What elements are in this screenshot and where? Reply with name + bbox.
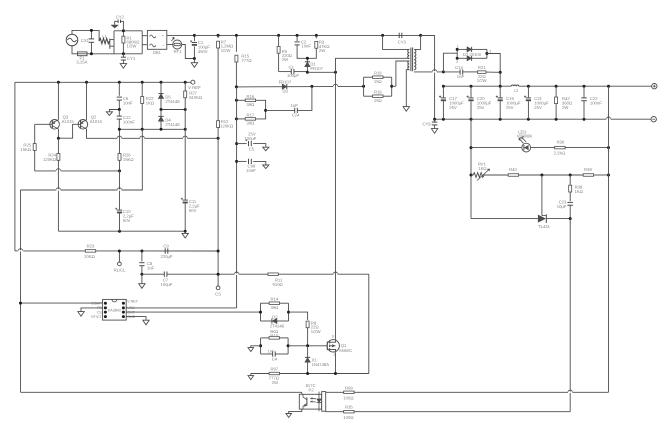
resistor R99 100Ohm: [326, 391, 344, 393]
ground aux winding: [403, 107, 409, 112]
resistor R11 910Ohm: [218, 273, 268, 275]
wire comp net left vertical: [20, 190, 22, 392]
svg-text:RL/CL: RL/CL: [114, 267, 127, 272]
svg-text:100Ω: 100Ω: [343, 396, 353, 401]
svg-text:C3: C3: [289, 64, 294, 69]
resistor R18 15Ohm: [363, 77, 365, 86]
svg-text:VD808K: VD808K: [517, 134, 533, 139]
ground C11/R24 node: [184, 230, 187, 233]
capacitor C8 1nF: [140, 250, 143, 253]
node VCC vertical junctions: [235, 142, 238, 145]
wire secondary return down to output minus bus: [421, 35, 435, 119]
svg-text:777Ω: 777Ω: [241, 58, 251, 63]
svg-text:A1015: A1015: [90, 119, 103, 124]
capacitor CY9 with ground: [434, 119, 436, 122]
diode D5 2T4148: [160, 82, 162, 93]
terminal CS: [216, 286, 220, 290]
svg-text:R23: R23: [87, 244, 95, 249]
wire R25 to R26 bottom line: [35, 170, 120, 172]
ground U1 GND: [143, 320, 149, 325]
wire bottom line F1 to filter loop: [87, 53, 114, 55]
svg-text:3: 3: [489, 49, 491, 53]
svg-text:25V: 25V: [534, 105, 542, 110]
svg-text:5N60C: 5N60C: [339, 348, 352, 353]
svg-text:15KΩ: 15KΩ: [123, 157, 134, 162]
capacitor CX1: [89, 38, 95, 40]
svg-text:R36: R36: [557, 140, 565, 145]
capacitor C4 1nF: [260, 346, 262, 354]
resistor R22 1KOhm: [141, 82, 143, 96]
svg-text:1KΩ: 1KΩ: [146, 100, 154, 105]
svg-text:25V: 25V: [449, 105, 457, 110]
transistor Q3 A1015: [50, 120, 60, 130]
svg-text:50V: 50V: [123, 218, 131, 223]
capacitor C10 2,2uF 50V: [119, 171, 121, 210]
svg-text:1: 1: [457, 44, 459, 48]
svg-text:50V: 50V: [189, 208, 197, 213]
svg-text:20KΩ: 20KΩ: [84, 254, 95, 259]
ground R10: [251, 346, 261, 348]
node R12 column junctions: [217, 250, 220, 253]
svg-text:1/2W: 1/2W: [221, 48, 231, 53]
wire comp rail to opto: [21, 391, 302, 393]
ground C8 bottom: [140, 273, 143, 276]
terminal RL/CL: [118, 251, 120, 262]
svg-text:R16: R16: [247, 94, 255, 99]
svg-text:C4: C4: [272, 357, 278, 362]
capacitor CY1 with ground: [122, 54, 124, 57]
svg-text:R99: R99: [345, 385, 353, 390]
wire secondary bottom line: [414, 71, 444, 73]
diode D2 2T4148: [260, 312, 262, 321]
svg-text:R39: R39: [584, 167, 592, 172]
svg-text:1/2W: 1/2W: [311, 329, 321, 334]
transistor Q2 A1015: [78, 120, 88, 130]
wire VREF bus left drop: [14, 82, 16, 251]
svg-text:CY2: CY2: [116, 14, 125, 19]
svg-text:10µF: 10µF: [557, 204, 567, 209]
wire VCC pin to VCC vertical: [126, 307, 236, 309]
wire clamp node to drain line: [307, 71, 335, 73]
svg-text:220µF: 220µF: [161, 254, 173, 259]
wire comp net horizontal: [21, 129, 143, 190]
terminal V REF: [191, 80, 195, 84]
wire Q3 base to R25: [35, 123, 53, 125]
resistor R17 39Ohm: [236, 118, 245, 120]
diode D3 FR107: [282, 84, 287, 89]
resistor R1 680KOhm 1/2W: [122, 31, 124, 36]
diode D1 FR107 clamp: [305, 61, 310, 63]
svg-text:CY1: CY1: [127, 56, 136, 61]
svg-text:2T4148: 2T4148: [270, 323, 285, 328]
svg-text:100nF: 100nF: [123, 119, 135, 124]
potentiometer RV1 1KOhm: [471, 173, 486, 178]
resistor R39: [583, 174, 593, 177]
svg-text:C24: C24: [292, 113, 300, 118]
resistor R27 810KOhm: [184, 82, 186, 91]
svg-text:2W: 2W: [319, 48, 325, 53]
resistor R38 1KOhm: [569, 175, 571, 185]
svg-text:DB1: DB1: [153, 50, 162, 55]
node VREF bus junctions: [57, 81, 60, 84]
node bias bus junctions: [118, 128, 121, 131]
wire Q2 collector line to R12: [87, 129, 219, 138]
svg-text:100µF: 100µF: [160, 282, 172, 287]
optocoupler P2 817C: [301, 392, 303, 394]
svg-text:100µF: 100µF: [287, 73, 299, 78]
svg-text:39Ω: 39Ω: [271, 305, 279, 310]
wire filter loop bottom: [114, 53, 142, 55]
svg-text:C9: C9: [163, 244, 169, 249]
resistor R40: [486, 174, 508, 176]
svg-text:15Ω: 15Ω: [374, 79, 382, 84]
ground FB: [78, 312, 84, 317]
node D1 junctions: [306, 57, 309, 60]
svg-text:1nF: 1nF: [147, 265, 155, 270]
svg-text:CY3: CY3: [398, 40, 407, 45]
node gate drive junctions: [259, 311, 262, 314]
inductor L2: [511, 85, 519, 86]
svg-text:120KΩ: 120KΩ: [43, 157, 56, 162]
wire aux winding top to R18/R19: [396, 61, 409, 86]
wire plus-sense down to R99 line: [608, 86, 610, 392]
resistor R19 15Ohm: [363, 86, 365, 96]
capacitor C1 100uF 450V: [193, 35, 195, 41]
svg-text:R35: R35: [345, 405, 353, 410]
resistor R26 15KOhm: [119, 129, 121, 153]
wire aux rectifier line: [236, 85, 363, 88]
node C1 junctions: [193, 34, 196, 37]
wire D5 to R27 node: [161, 109, 185, 111]
capacitor C99 10nF: [237, 160, 247, 162]
svg-text:1KΩ: 1KΩ: [575, 189, 583, 194]
wire GND pin to ground: [126, 317, 146, 321]
node U1 pin dots: [104, 302, 107, 305]
wire output minus bus: [435, 118, 651, 120]
svg-text:FR107: FR107: [279, 80, 292, 85]
svg-text:CY9: CY9: [422, 121, 431, 126]
svg-text:D7 20100: D7 20100: [463, 52, 482, 57]
capacitor C5 100uF 25V VCC filter: [237, 143, 247, 145]
resistor R25 15KOhm: [34, 124, 36, 143]
wire TL431 ref: [541, 175, 543, 216]
svg-text:10nF: 10nF: [301, 44, 311, 49]
svg-text:2: 2: [456, 60, 458, 64]
thermistor RT1: [173, 40, 182, 49]
resistor R16 39Ohm: [236, 99, 245, 101]
wire DB1 - output to RT1: [167, 44, 173, 46]
transformer T1 primary winding: [408, 49, 410, 58]
MOSFET Q1 5N60C: [327, 340, 339, 352]
wire AC source top to CX1/L1: [72, 30, 99, 41]
node minus bus junctions: [433, 118, 436, 121]
wire RT1 to C1 negative node: [182, 45, 195, 59]
svg-text:39Ω: 39Ω: [247, 120, 255, 125]
wire R11 down to source line: [368, 274, 370, 373]
ground opto emitter: [289, 409, 302, 413]
inductor L1 (filter choke): [99, 38, 109, 43]
wire Q2 base to Q3 collector: [58, 124, 80, 138]
svg-text:1/2W: 1/2W: [477, 78, 487, 83]
wire Q1 source to sense line: [335, 353, 337, 374]
svg-text:1nF: 1nF: [291, 103, 299, 108]
svg-text:1N4748A: 1N4748A: [312, 362, 330, 367]
node R10 junctions: [259, 344, 262, 347]
resistor R15 777Ohm: [235, 35, 237, 51]
LED VD808K: [471, 147, 522, 149]
wire Q1 drain line: [335, 72, 337, 338]
terminal output plus: [652, 84, 657, 89]
svg-text:2T4148: 2T4148: [165, 122, 180, 127]
transformer T1 core: [410, 48, 412, 72]
svg-text:P2: P2: [309, 388, 315, 393]
svg-text:RT1: RT1: [174, 49, 183, 54]
capacitor C19 1000uF 25V: [499, 86, 501, 97]
capacitor C3 100uF snubber: [279, 71, 292, 73]
wire bias bus B: [119, 128, 185, 130]
resistor R36 2,2KOhm: [531, 147, 555, 149]
node HV rail junctions: [217, 34, 220, 37]
svg-text:25V: 25V: [506, 105, 514, 110]
shunt regulator TL431: [471, 218, 538, 220]
capacitor C23 10uF: [567, 201, 573, 203]
svg-text:CX1: CX1: [81, 38, 90, 43]
svg-text:100nF: 100nF: [590, 100, 602, 105]
wire gate line: [288, 345, 327, 347]
wire HV rail: [194, 34, 434, 36]
svg-text:D3: D3: [283, 89, 289, 94]
resistor R23 20KOhm: [15, 250, 18, 252]
capacitor C2 10nF snubber: [296, 35, 298, 41]
svg-text:R21: R21: [478, 65, 486, 70]
wire TL431 cathode down to R35 line: [569, 219, 571, 412]
resistor R35 100Ohm: [326, 411, 344, 413]
wire COMP pin to left rail: [21, 302, 103, 304]
node CX1 junctions: [90, 29, 93, 32]
wire filter loop top: [114, 30, 142, 32]
wire OUT pin to gate drive: [126, 311, 260, 313]
resistor R12 120KOhm: [217, 121, 220, 128]
svg-text:A1015: A1015: [62, 119, 75, 124]
zener X1 1N4748A: [307, 346, 309, 358]
wire AC source bottom to F1: [72, 46, 78, 54]
ground R97: [250, 374, 252, 376]
svg-text:RT/CT: RT/CT: [91, 315, 102, 319]
svg-text:R10: R10: [270, 333, 278, 338]
svg-text:R18: R18: [374, 70, 382, 75]
capacitor C24 1nF: [266, 109, 295, 111]
svg-text:10nF: 10nF: [246, 168, 256, 173]
resistor R7 1,2MOhm 1/2W: [217, 35, 219, 38]
capacitor C11 2,2uF 50V: [184, 110, 186, 200]
wire FB pin to ground: [81, 308, 103, 312]
resistor R3 47KOhm 2W snubber: [315, 35, 317, 38]
svg-text:120KΩ: 120KΩ: [220, 124, 233, 129]
wire R40 to R39 segment: [542, 174, 583, 176]
svg-text:10nF: 10nF: [123, 100, 133, 105]
wire R24 bottom line to ground node: [58, 230, 185, 232]
resistor R42 360Ohm 2W: [555, 86, 557, 97]
svg-text:2,2KΩ: 2,2KΩ: [554, 151, 566, 156]
svg-text:2W: 2W: [272, 380, 278, 385]
svg-text:25V: 25V: [477, 105, 485, 110]
svg-text:L2: L2: [514, 88, 518, 93]
svg-text:R17: R17: [247, 113, 255, 118]
dual diode D7 20100: [443, 53, 457, 72]
svg-text:KA3842: KA3842: [108, 308, 122, 312]
capacitor C22 100nF: [583, 86, 585, 98]
capacitor C6 10nF: [118, 82, 120, 96]
wire primary top to HV rail: [383, 35, 410, 49]
svg-text:R19: R19: [374, 89, 382, 94]
wire DB1 + output to HV rail: [167, 34, 195, 36]
resistor R5 220Ohm 2W snubber: [278, 35, 280, 46]
capacitor CY3: [398, 33, 400, 38]
capacitor C17 1000uF 25V: [442, 86, 444, 97]
resistor R21 22Ohm 1/2W: [477, 71, 486, 74]
node feedback left junctions: [470, 146, 473, 149]
resistor R97 777Ohm 2W sense: [251, 373, 269, 375]
capacitor C7 100uF: [142, 273, 164, 275]
capacitor CY2 with chassis ground: [121, 21, 124, 31]
resistor R24 120KOhm: [57, 154, 60, 161]
node sense line junctions: [306, 372, 309, 375]
svg-text:100Ω: 100Ω: [343, 415, 353, 420]
resistor R14 39Ohm gate: [260, 303, 262, 312]
node R1 junctions: [122, 29, 125, 32]
svg-text:V REF: V REF: [127, 300, 138, 304]
svg-text:15Ω: 15Ω: [374, 98, 382, 103]
svg-text:D2: D2: [272, 314, 278, 319]
wire filter loop left vertical: [113, 31, 115, 54]
wire output plus bus: [443, 85, 511, 87]
wire output plus bus after L2: [519, 85, 652, 87]
node divider junctions: [540, 174, 543, 177]
transformer T1 aux winding: [408, 61, 409, 70]
resistor R10 5KOhm: [260, 338, 262, 346]
svg-text:C14: C14: [455, 65, 463, 70]
svg-text:CS: CS: [97, 310, 103, 314]
svg-text:V REF: V REF: [188, 85, 201, 90]
svg-text:3,15A: 3,15A: [76, 60, 87, 65]
terminal output minus: [651, 117, 656, 122]
svg-text:2T4148: 2T4148: [165, 99, 180, 104]
wire R18/R19 to aux winding: [391, 77, 393, 96]
svg-text:CS: CS: [215, 291, 221, 296]
svg-text:100µF: 100µF: [244, 136, 256, 141]
capacitor C21 1000uF 25V: [527, 86, 529, 97]
wire drain line top to primary: [336, 58, 410, 72]
wire D7 output to plus bus: [487, 54, 500, 87]
bridge rectifier DB1: [147, 30, 166, 49]
svg-text:FR107: FR107: [310, 66, 323, 71]
svg-text:1nF: 1nF: [457, 74, 465, 79]
capacitor C9 220uF: [164, 248, 166, 253]
svg-text:R14: R14: [271, 297, 279, 302]
svg-text:L1: L1: [102, 34, 106, 39]
svg-text:1KΩ: 1KΩ: [478, 166, 486, 171]
node plus bus junctions: [442, 85, 445, 88]
svg-text:2W: 2W: [282, 57, 288, 62]
wire aux winding bottom to ground: [406, 70, 409, 107]
svg-text:R40: R40: [509, 167, 517, 172]
wire C20 node down to TL431 line: [470, 119, 472, 218]
svg-text:450V: 450V: [198, 49, 208, 54]
svg-text:2W: 2W: [562, 105, 568, 110]
node R16/R17 junctions: [235, 99, 238, 102]
AC source G1: [66, 34, 78, 46]
wire VCC vertical: [236, 87, 238, 308]
svg-text:39Ω: 39Ω: [247, 102, 255, 107]
svg-text:1nF: 1nF: [268, 348, 275, 353]
svg-text:1/2W: 1/2W: [127, 44, 137, 49]
transformer T1 secondary winding: [414, 49, 416, 69]
wire VREF bus: [15, 81, 191, 83]
IC U1 KA3842: [103, 299, 127, 320]
svg-text:C5: C5: [249, 146, 255, 151]
wire secondary top to CY3 node: [414, 35, 420, 49]
svg-text:910Ω: 910Ω: [273, 282, 283, 287]
svg-text:15KΩ: 15KΩ: [20, 147, 31, 152]
wire R7/R12 vertical: [217, 48, 219, 286]
wire filter loop right vertical: [141, 31, 143, 54]
diode D4 2T4148: [158, 115, 163, 117]
svg-text:810KΩ: 810KΩ: [189, 95, 202, 100]
capacitor C12 100nF: [117, 115, 122, 117]
ground below C1: [193, 59, 195, 63]
node aux line junctions: [235, 85, 238, 88]
resistor R8 22Ohm 1/2W: [289, 312, 308, 320]
svg-text:R97: R97: [270, 367, 278, 372]
wire DB1 AC inputs: [142, 35, 147, 37]
svg-text:TL431: TL431: [538, 224, 551, 229]
capacitor C20 1000uF 25V: [470, 86, 472, 97]
ground C6/C12 midpoint: [109, 110, 119, 112]
capacitor C14 1nF snubber: [443, 71, 460, 73]
fuse F1 3,15A: [78, 52, 88, 56]
